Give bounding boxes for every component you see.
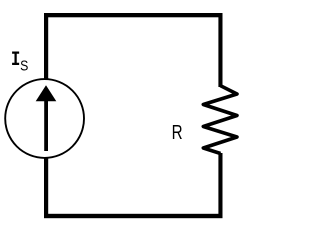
wire top rail	[44, 13, 223, 17]
wire right upper segment	[218, 13, 222, 87]
wire left lower segment	[44, 158, 48, 218]
wire left upper segment	[44, 13, 48, 79]
current source IS circle	[5, 79, 84, 158]
svg-text:R: R	[172, 121, 183, 144]
svg-text:S: S	[20, 57, 28, 73]
wire bottom rail	[44, 214, 223, 218]
current source arrow shaft	[44, 98, 48, 151]
current source arrow head	[36, 85, 57, 101]
resistor R zigzag	[203, 86, 237, 154]
wire right lower segment	[218, 153, 222, 218]
svg-text:I: I	[11, 49, 20, 71]
